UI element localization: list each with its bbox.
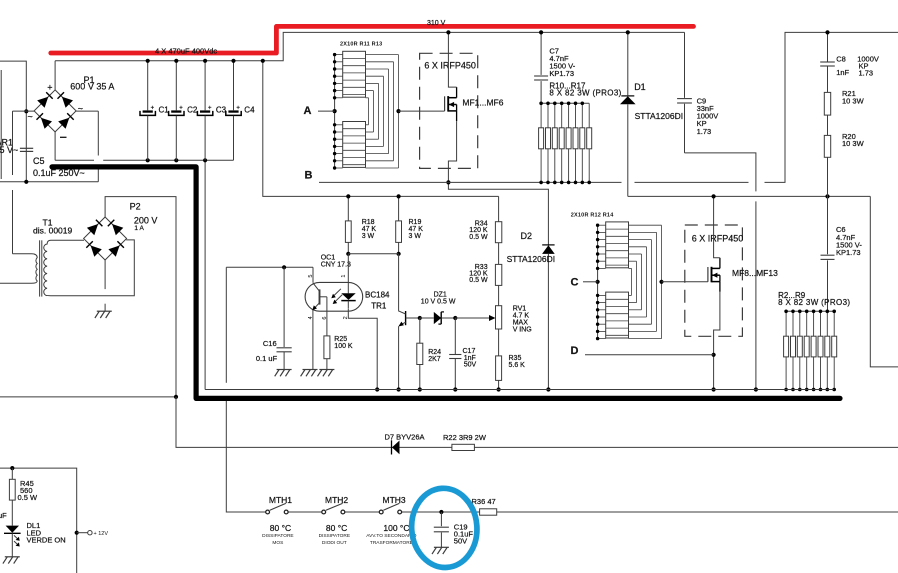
potentiometer RV1 <box>498 285 500 305</box>
svg-text:50V: 50V <box>454 537 467 546</box>
svg-text:RV1: RV1 <box>513 305 527 312</box>
svg-text:600 V 35 A: 600 V 35 A <box>70 81 114 91</box>
ground P2 <box>97 310 112 312</box>
svg-text:0.5 W: 0.5 W <box>469 277 488 284</box>
svg-text:D: D <box>571 345 579 357</box>
node TR1 emitter rail <box>397 387 401 391</box>
transistor MF1..MF6 <box>444 96 446 111</box>
LED DL1 <box>6 526 19 533</box>
resistor R22 <box>452 444 475 450</box>
svg-text:2: 2 <box>343 316 349 319</box>
wire node D <box>585 354 714 356</box>
svg-text:C1: C1 <box>159 105 170 114</box>
svg-text:VERDE ON: VERDE ON <box>27 536 66 545</box>
resistor R19 <box>398 196 400 221</box>
capacitor C19 <box>440 512 442 526</box>
svg-text:1: 1 <box>341 275 347 278</box>
node rail C2 <box>174 59 178 63</box>
wire P1 plus lead <box>54 61 56 90</box>
light arrows OC1 <box>333 289 341 297</box>
svg-text:uF: uF <box>0 511 7 520</box>
node R19 bottom <box>397 252 401 256</box>
resistor R35 <box>498 329 500 356</box>
bridge rectifier P1 <box>34 90 76 132</box>
diode P1 top-left <box>37 97 48 108</box>
wire source2 to node D and rail <box>714 292 720 390</box>
wire P2 plus output <box>105 197 176 397</box>
wire network2 to gate <box>662 281 708 283</box>
phototransistor OC1 <box>319 289 321 304</box>
resistor R7 bank2 wire <box>820 311 822 336</box>
node C8 rail <box>825 30 829 34</box>
wire R1 branch upper <box>12 111 14 175</box>
node C7 rail <box>539 30 543 34</box>
resistor R36 <box>480 509 497 515</box>
wire R1 branch lower to T1 <box>12 190 14 254</box>
wire MTH row <box>288 511 321 513</box>
wire node C <box>583 281 598 283</box>
svg-text:0.1 uF: 0.1 uF <box>256 354 278 363</box>
wire drain1 from rail <box>448 32 456 87</box>
diode P1 bottom-right <box>58 118 69 129</box>
wire R18-R19 bottoms <box>348 253 398 255</box>
svg-text:C5: C5 <box>33 156 45 166</box>
core T1 <box>39 240 41 296</box>
svg-text:10 3W: 10 3W <box>842 96 865 105</box>
wire source1 to node B <box>448 121 548 245</box>
resistor R14 bank1 wire <box>568 103 570 128</box>
svg-text:5: 5 <box>308 275 314 278</box>
node R18 top <box>346 194 350 198</box>
resistor R11 bank1 wire <box>547 103 549 128</box>
svg-text:STTA1206DI: STTA1206DI <box>635 111 684 121</box>
blue highlight ellipse C19 <box>409 486 480 570</box>
thermal switch MTH2 <box>322 510 326 514</box>
svg-text:R24: R24 <box>428 349 441 356</box>
svg-text:C8: C8 <box>836 55 846 64</box>
capacitor C9 <box>684 32 686 98</box>
node drain1 <box>446 30 450 34</box>
transistor MF8..MF13 <box>707 267 709 282</box>
wire bus dropdown to bottom rail <box>204 160 206 389</box>
wire P1 AC right lead + return <box>76 110 98 112</box>
resistor R3 bank2 wire <box>792 311 794 336</box>
svg-text:8 X 82 3W (PRO3): 8 X 82 3W (PRO3) <box>778 298 850 307</box>
resistor R6 bank2 wire <box>813 311 815 336</box>
svg-text:STTA1206DI: STTA1206DI <box>507 254 556 264</box>
svg-text:10 V 0.5 W: 10 V 0.5 W <box>421 299 456 306</box>
svg-text:CNY 17.3: CNY 17.3 <box>321 262 351 269</box>
diode D1 <box>627 32 629 95</box>
svg-text:1 A: 1 A <box>134 225 144 232</box>
dashed box 6 X IRFP450 group2 <box>685 225 743 336</box>
wire phase to right edge <box>870 196 898 367</box>
wire OC1 pin5 top <box>226 266 313 268</box>
thick black return marker <box>52 167 840 399</box>
svg-text:47 K: 47 K <box>362 226 377 233</box>
node D2 rail <box>546 387 550 391</box>
wire mains N return <box>0 181 98 183</box>
svg-text:4: 4 <box>308 316 314 319</box>
svg-text:47 K: 47 K <box>409 226 424 233</box>
diode P1 bottom-left <box>41 118 52 129</box>
secondary winding T1 <box>44 240 135 296</box>
node R18 bottom <box>346 252 350 256</box>
svg-text:P2: P2 <box>130 202 141 212</box>
svg-text:MF1...MF6: MF1...MF6 <box>462 98 503 108</box>
primary winding T1 <box>0 254 37 283</box>
svg-text:R22 3R9 2W: R22 3R9 2W <box>443 433 487 442</box>
resistor R21 <box>824 92 830 115</box>
wire R36 out <box>471 511 480 513</box>
svg-text:1.73: 1.73 <box>859 69 874 78</box>
node pin2 rail <box>375 387 379 391</box>
wire mains L input <box>0 61 26 182</box>
resistor R10 bank1 wire <box>540 103 542 128</box>
transistor TR1 <box>398 254 400 311</box>
resistor R4 bank2 wire <box>799 311 801 336</box>
node bus C1 <box>146 158 150 162</box>
wire return from left <box>0 396 176 398</box>
svg-text:1.73: 1.73 <box>697 127 712 136</box>
resistor R24 <box>419 318 421 343</box>
ground OC1 pin4 <box>303 369 318 371</box>
node R24 rail <box>418 387 422 391</box>
node C6 tap <box>825 194 829 198</box>
svg-text:2K7: 2K7 <box>428 356 441 363</box>
svg-text:dis. 00019: dis. 00019 <box>33 225 72 235</box>
capacitor C5 <box>20 147 33 149</box>
svg-text:+: + <box>208 105 212 111</box>
wire +310V rail <box>55 32 684 60</box>
node source2 D <box>712 353 716 357</box>
svg-text:4 X 470uF 400Vdc: 4 X 470uF 400Vdc <box>155 47 217 56</box>
bridge rectifier P2 <box>84 217 127 260</box>
svg-text:~: ~ <box>78 104 83 114</box>
resistor R33 <box>498 243 500 265</box>
svg-text:2X10R R12 R14: 2X10R R12 R14 <box>571 212 614 218</box>
svg-text:R35: R35 <box>509 355 522 362</box>
resistor R15 bank1 wire <box>575 103 577 128</box>
resistor R20 <box>824 135 830 157</box>
svg-text:B: B <box>305 170 313 182</box>
svg-text:MOS: MOS <box>272 540 283 546</box>
node chain rail <box>497 387 501 391</box>
wire gate-bias feed <box>263 61 499 197</box>
node source1 B <box>446 180 450 184</box>
resistor R34 <box>498 196 500 221</box>
resistor R8 bank2 wire <box>826 311 828 336</box>
wire negative bus under caps <box>55 159 94 161</box>
svg-text:AVV.TO SECONDARIO: AVV.TO SECONDARIO <box>366 533 417 539</box>
node rail C1 <box>146 59 150 63</box>
svg-text:+ 12V: + 12V <box>94 531 109 537</box>
svg-text:A: A <box>304 105 312 117</box>
svg-text:KP1.73: KP1.73 <box>836 248 861 257</box>
svg-text:R25: R25 <box>334 336 347 343</box>
capacitor C1 <box>147 61 149 111</box>
ground R25 <box>319 369 334 371</box>
node bus C3 <box>203 158 207 162</box>
wire down to D7 row <box>176 397 898 448</box>
node rail C4 <box>231 59 235 63</box>
310V red marker line <box>51 26 694 53</box>
wire OC1 pin2 <box>348 308 377 389</box>
diode P2 top-left <box>87 224 98 235</box>
svg-text:MTH3: MTH3 <box>383 495 406 505</box>
svg-text:10 3W: 10 3W <box>842 139 865 148</box>
capacitor C17 <box>454 318 456 354</box>
diode P1 top-right <box>62 97 73 108</box>
svg-text:V ING: V ING <box>513 326 532 333</box>
svg-text:BC184: BC184 <box>365 290 390 299</box>
node R19 top <box>397 194 401 198</box>
thermal switch MTH3 <box>379 510 383 514</box>
svg-text:OC1: OC1 <box>321 255 336 262</box>
wire OC1 pin4 <box>312 310 314 370</box>
svg-text:MF8...MF13: MF8...MF13 <box>732 268 778 278</box>
svg-text:D2: D2 <box>521 231 533 241</box>
wire TR1 base <box>406 317 420 319</box>
node rail C3 <box>203 59 207 63</box>
resistor bank R2..R9 <box>786 310 834 312</box>
svg-text:3 W: 3 W <box>409 233 422 240</box>
resistor R16 bank1 wire <box>581 103 583 128</box>
capacitor C6 <box>827 196 829 254</box>
svg-text:+: + <box>179 105 183 111</box>
svg-text:DZ1: DZ1 <box>434 292 447 299</box>
diode D7 <box>391 440 393 454</box>
capacitor C16 <box>283 267 285 347</box>
svg-text:+: + <box>236 105 240 111</box>
ground C16 <box>277 369 292 371</box>
node source2 rail <box>712 387 716 391</box>
svg-text:KP1.73: KP1.73 <box>549 69 574 78</box>
svg-text:TR1: TR1 <box>371 301 387 310</box>
svg-text:+: + <box>47 83 52 93</box>
svg-text:200 V: 200 V <box>134 215 158 225</box>
wire P1 minus lead <box>54 132 56 160</box>
svg-text:1nF: 1nF <box>836 68 849 77</box>
wire OC1 pin6 + R25 <box>326 297 328 336</box>
wire P1 AC left lead <box>13 110 35 112</box>
svg-text:310 V: 310 V <box>427 20 446 27</box>
node C5 top <box>24 109 28 113</box>
node feed rail <box>261 59 265 63</box>
svg-text:R36 47: R36 47 <box>472 497 496 506</box>
svg-text:C: C <box>571 276 579 288</box>
svg-text:R19: R19 <box>409 219 422 226</box>
resistor network R11 R13 <box>334 55 336 168</box>
zener DZ1 <box>420 317 434 319</box>
node D1 rail <box>626 30 630 34</box>
node R45 top <box>10 466 14 470</box>
svg-text:6 X IRFP450: 6 X IRFP450 <box>692 234 744 244</box>
diode P2 bottom-left <box>91 246 102 257</box>
svg-text:DIODI OUT: DIODI OUT <box>322 540 347 546</box>
node C9 rail <box>754 387 758 391</box>
svg-text:TRASFORMATORE: TRASFORMATORE <box>370 540 413 546</box>
wire network1 to gate <box>399 110 445 112</box>
svg-text:6 X IRFP450: 6 X IRFP450 <box>424 60 476 70</box>
wire P2 minus to ground <box>104 260 106 289</box>
wire pin5 down to MTH <box>225 267 227 383</box>
resistor R17 bank1 wire <box>588 103 590 128</box>
node base/R24 <box>418 316 422 320</box>
node +12V tap <box>75 531 79 535</box>
svg-text:0.5 W: 0.5 W <box>18 493 39 502</box>
resistor R5 bank2 wire <box>806 311 808 336</box>
svg-text:MTH2: MTH2 <box>325 495 348 505</box>
varistor VAR1 <box>0 70 2 179</box>
resistor R9 bank2 wire <box>833 311 835 336</box>
node C16 top <box>282 265 286 269</box>
diode P2 bottom-right <box>108 246 119 257</box>
diode P2 top-right <box>112 224 123 235</box>
optocoupler OC1 body <box>305 282 363 311</box>
svg-text:D1: D1 <box>634 82 646 92</box>
svg-text:C2: C2 <box>187 105 198 114</box>
svg-text:~: ~ <box>28 112 33 122</box>
wire bottom control rail <box>205 389 834 391</box>
resistor R2 bank2 wire <box>785 311 787 336</box>
resistor bank R10..R17 <box>541 102 589 104</box>
node C5 bottom <box>24 180 28 184</box>
svg-text:80 °C: 80 °C <box>270 523 291 533</box>
capacitor C2 <box>175 61 177 111</box>
node C19 <box>439 510 443 514</box>
svg-text:DISSIPATORE: DISSIPATORE <box>319 533 350 539</box>
svg-text:5.6 K: 5.6 K <box>509 362 526 369</box>
dashed box 6 X IRFP450 group1 <box>420 53 478 168</box>
ground DL1 <box>5 556 20 558</box>
wire to RV1 wiper <box>455 317 490 319</box>
LED OC1 <box>347 284 349 293</box>
resistor R13 bank1 wire <box>561 103 563 128</box>
svg-text:8 X 82 3W (PRO3): 8 X 82 3W (PRO3) <box>549 89 621 98</box>
svg-text:6: 6 <box>322 317 328 320</box>
capacitor C7 <box>540 32 542 75</box>
wire 12V feed <box>0 468 77 573</box>
svg-text:MTH1: MTH1 <box>269 495 292 505</box>
node bus C2 <box>174 158 178 162</box>
svg-text:0.5 W: 0.5 W <box>469 234 488 241</box>
svg-text:D7 BYV26A: D7 BYV26A <box>385 433 425 442</box>
svg-text:2X10R R11 R13: 2X10R R11 R13 <box>340 42 382 48</box>
capacitor C3 <box>204 61 206 111</box>
svg-text:R18: R18 <box>362 219 375 226</box>
thermal switch MTH1 <box>266 510 270 514</box>
node drain2 tap <box>712 194 716 198</box>
svg-text:100 °C: 100 °C <box>383 523 409 533</box>
resistor R12 bank1 wire <box>554 103 556 128</box>
capacitor C4 <box>233 61 235 111</box>
node P2+ / return <box>174 395 178 399</box>
node DZ1/C17 <box>453 316 457 320</box>
svg-text:+: + <box>151 105 155 111</box>
svg-text:5 V~: 5 V~ <box>0 145 18 155</box>
resistor R18 <box>347 196 349 221</box>
diode D2 <box>542 244 554 246</box>
terminal +12V <box>77 532 88 534</box>
capacitor C8 <box>827 32 829 62</box>
wire drain2 from phase node <box>714 196 720 257</box>
node C17 rail <box>453 387 457 391</box>
ground C19 <box>434 546 449 548</box>
wire node A <box>318 110 335 112</box>
svg-text:DISSIPATORE: DISSIPATORE <box>262 533 293 539</box>
svg-text:50V: 50V <box>464 362 477 369</box>
svg-text:80 °C: 80 °C <box>326 523 347 533</box>
resistor network R12 R14 <box>597 225 599 338</box>
svg-text:MAX: MAX <box>513 319 529 326</box>
wire OC1 pin1 <box>347 254 349 284</box>
svg-text:4.7 K: 4.7 K <box>513 312 530 319</box>
svg-text:C4: C4 <box>244 105 255 114</box>
resistor R45 <box>11 468 13 479</box>
svg-text:C16: C16 <box>263 339 277 348</box>
wire phase node <box>628 195 871 197</box>
svg-text:100 K: 100 K <box>334 343 353 350</box>
svg-text:3 W: 3 W <box>362 233 375 240</box>
